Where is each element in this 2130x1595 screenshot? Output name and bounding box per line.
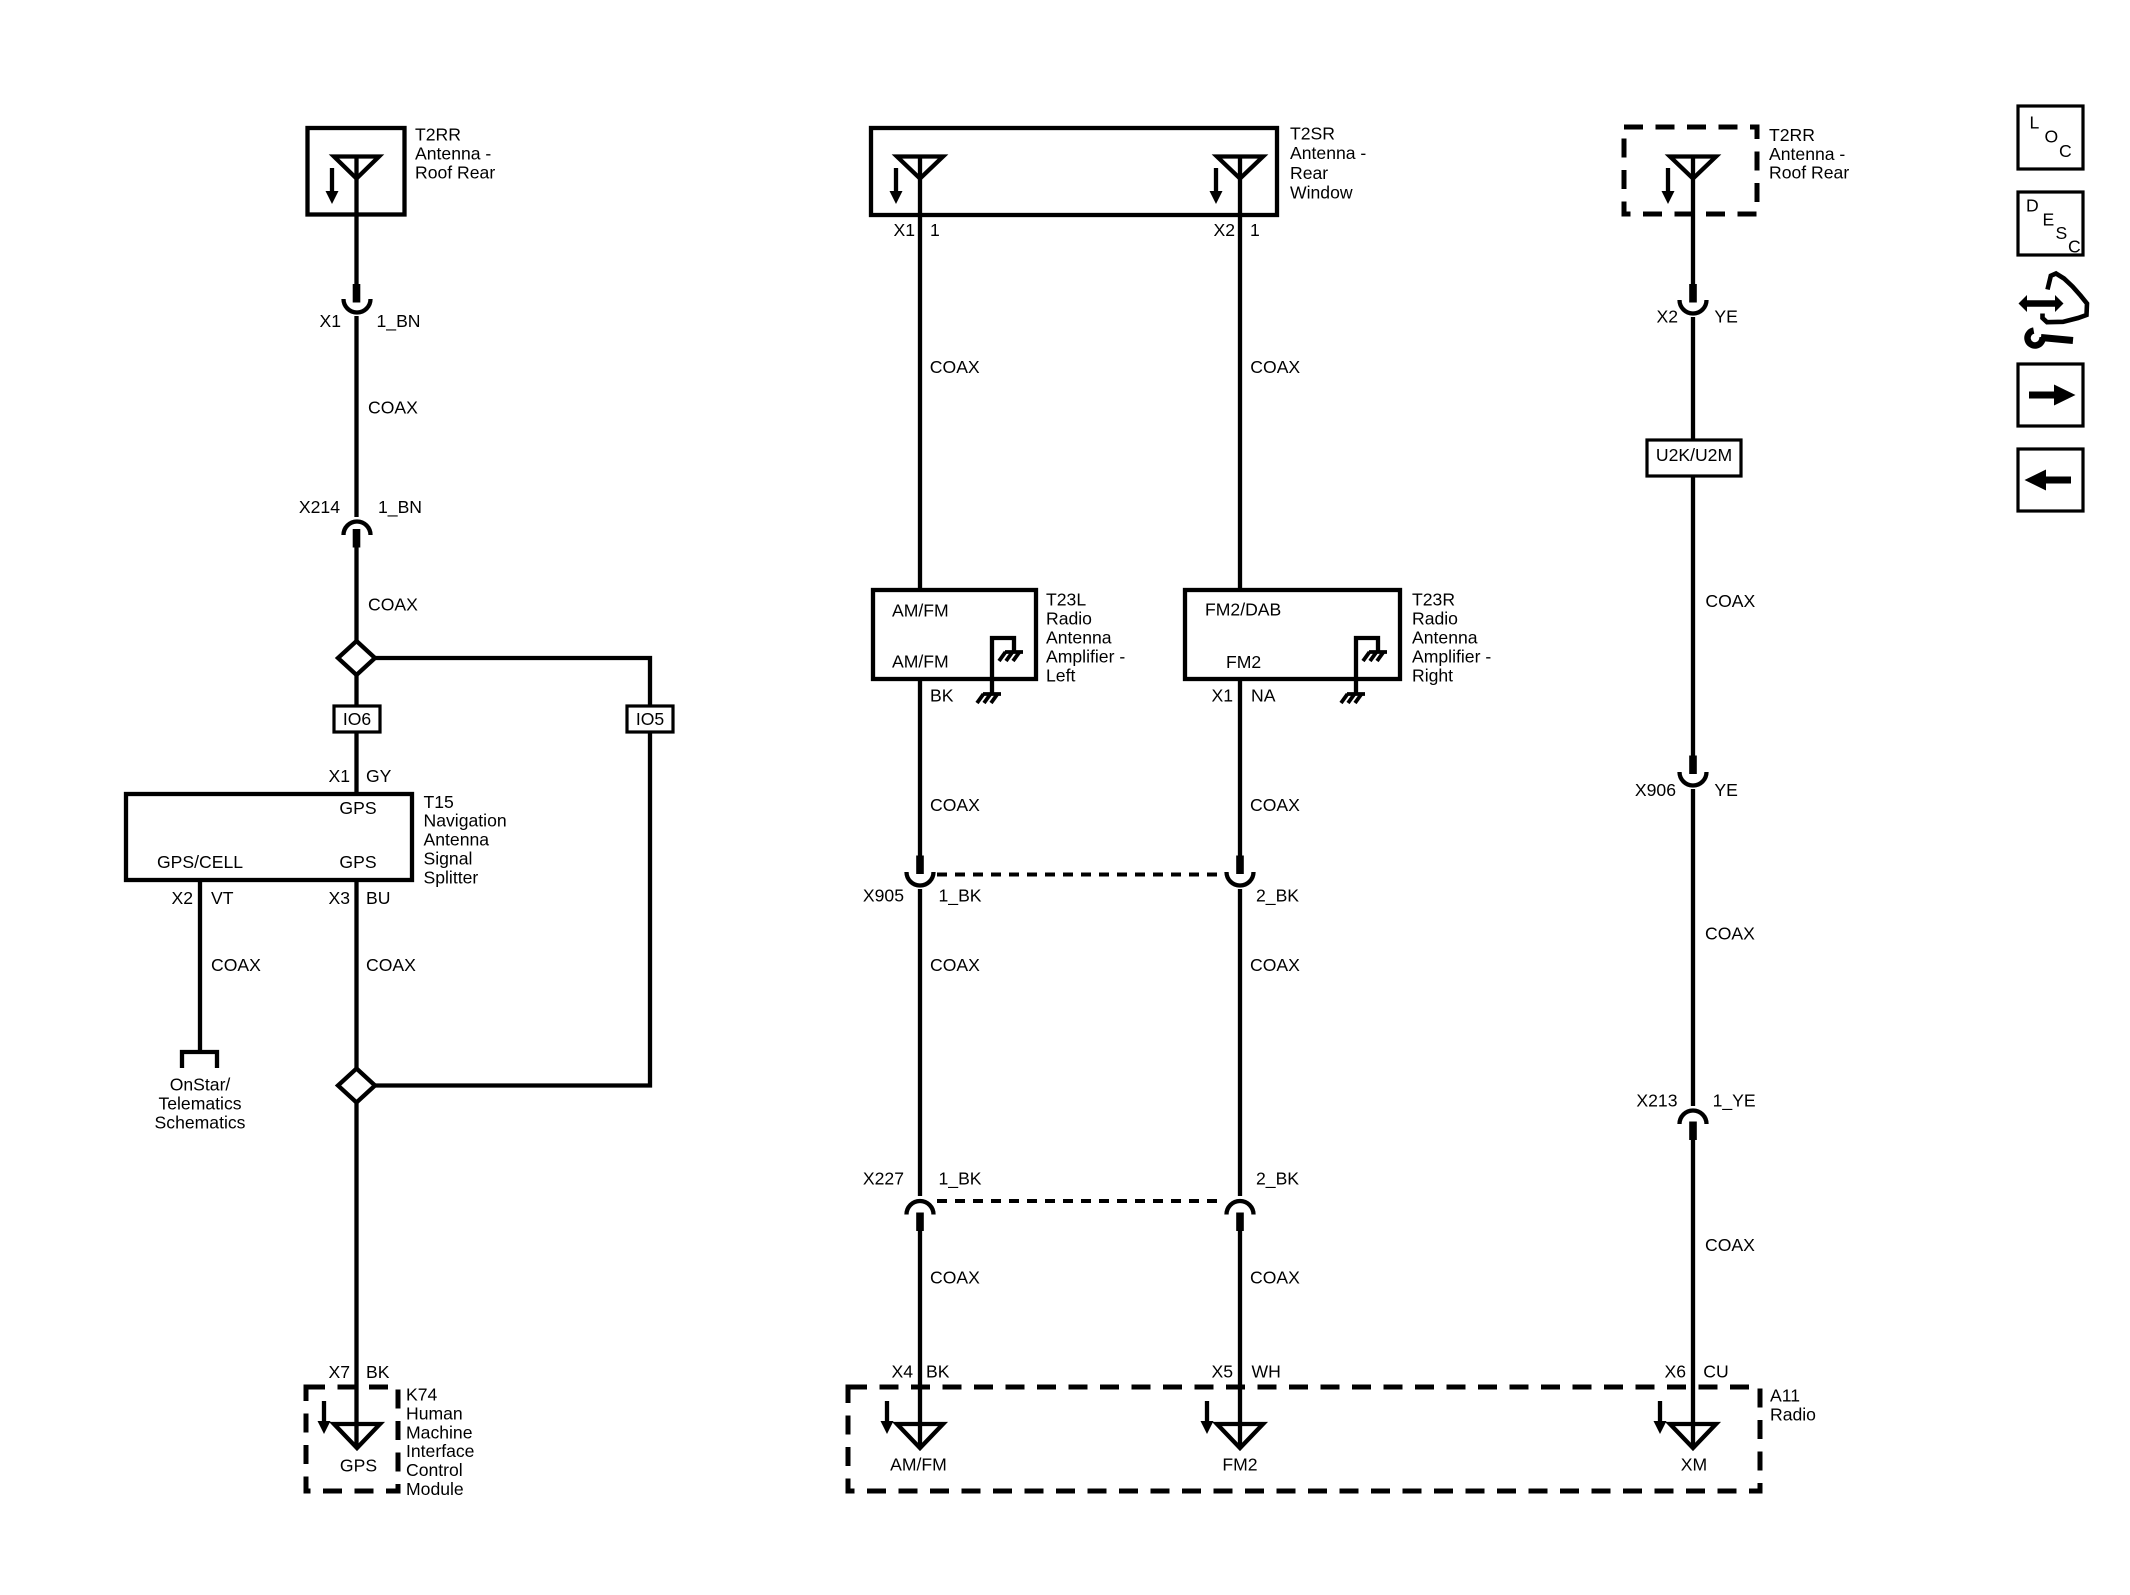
svg-text:Human: Human: [406, 1403, 463, 1423]
svg-text:Radio: Radio: [1412, 609, 1458, 629]
svg-text:Amplifier -: Amplifier -: [1412, 646, 1491, 666]
connector X227 left arc: [907, 1201, 934, 1215]
U2K/U2M box: [1647, 440, 1741, 476]
antenna symbol T2RR right: [1670, 157, 1716, 215]
antenna T2RR box: [308, 128, 405, 215]
svg-text:IO6: IO6: [343, 709, 372, 729]
connector X213 pin: [1689, 1122, 1697, 1141]
antenna T2RR dashed box: [1624, 127, 1757, 214]
svg-text:X5: X5: [1211, 1362, 1233, 1382]
dashed link X227: [937, 1199, 1225, 1203]
A11 radio dashed box: [848, 1387, 1760, 1491]
svg-text:X905: X905: [863, 886, 904, 906]
arrow in A11 XM: [1654, 1401, 1667, 1434]
svg-text:BK: BK: [926, 1362, 950, 1382]
arrow in T2RR: [326, 168, 339, 204]
svg-text:Radio: Radio: [1046, 609, 1092, 629]
antenna T2SR box: [871, 128, 1277, 215]
wire COAX X214 to splice: [354, 547, 358, 641]
svg-text:Control: Control: [406, 1460, 463, 1480]
svg-text:Schematics: Schematics: [155, 1112, 246, 1132]
label T15 name: [424, 792, 507, 888]
svg-text:WH: WH: [1252, 1362, 1281, 1382]
wire COAX T23R to X905: [1238, 679, 1242, 856]
svg-text:X6: X6: [1664, 1362, 1686, 1382]
svg-text:C: C: [2068, 237, 2081, 257]
wire COAX U2K to X906: [1691, 476, 1695, 756]
svg-text:1_BN: 1_BN: [377, 311, 421, 332]
svg-text:Splitter: Splitter: [424, 867, 479, 887]
svg-text:VT: VT: [211, 888, 234, 908]
wire COAX X213 to radio: [1691, 1139, 1695, 1448]
arrow in T2RR right: [1662, 168, 1675, 204]
svg-text:Radio: Radio: [1770, 1404, 1816, 1424]
icon wrench: [2028, 331, 2073, 346]
splice diamond node 1: [338, 641, 375, 675]
icon arrow left box: [2018, 449, 2083, 511]
wire COAX T2SR to T23R: [1238, 215, 1242, 590]
svg-text:X1: X1: [893, 220, 915, 240]
wire COAX X905 to X227 left: [918, 889, 922, 1196]
svg-text:COAX: COAX: [1705, 591, 1755, 611]
connector X227 right pin: [1236, 1213, 1244, 1232]
svg-text:COAX: COAX: [930, 357, 980, 377]
label K74 name: [406, 1385, 474, 1500]
svg-text:FM2: FM2: [1222, 1455, 1257, 1475]
svg-text:U2K/U2M: U2K/U2M: [1656, 445, 1732, 465]
svg-text:FM2/DAB: FM2/DAB: [1205, 600, 1281, 620]
arrow in T2SR right: [1210, 168, 1223, 204]
label OnStar Telematics Schematics: [155, 1075, 246, 1133]
wire COAX X227 to radio left: [918, 1230, 922, 1448]
svg-text:X4: X4: [891, 1362, 913, 1382]
svg-text:GPS: GPS: [339, 798, 376, 818]
svg-text:COAX: COAX: [930, 1268, 980, 1288]
icon vehicle outline: [2043, 274, 2088, 323]
svg-text:Antenna: Antenna: [424, 830, 490, 850]
svg-text:Module: Module: [406, 1479, 464, 1499]
terminal triangle FM2: [1217, 1424, 1263, 1448]
label T23L name: [1046, 590, 1125, 686]
svg-text:A11: A11: [1770, 1386, 1800, 1406]
svg-text:COAX: COAX: [1250, 1268, 1300, 1288]
antenna symbol T2SR left: [897, 157, 943, 216]
terminal triangle AM/FM: [897, 1424, 943, 1448]
svg-text:FM2: FM2: [1226, 652, 1261, 672]
label T2SR name: [1290, 123, 1366, 202]
arrow in T2SR left: [890, 168, 903, 204]
svg-text:Antenna: Antenna: [1412, 628, 1478, 648]
ground symbol T23R inner: [1363, 652, 1387, 661]
antenna symbol T2SR right: [1217, 157, 1263, 216]
wire COAX X905 to X227 right: [1238, 889, 1242, 1196]
svg-text:COAX: COAX: [1250, 357, 1300, 377]
wire antenna to X1: [354, 214, 358, 285]
ground symbol T23L lower: [977, 694, 1001, 703]
connector X214 pin: [353, 529, 361, 548]
arrow in A11 AM/FM: [881, 1401, 894, 1434]
svg-text:X1: X1: [319, 311, 341, 331]
svg-text:E: E: [2043, 210, 2055, 230]
connector X2 pin: [1689, 284, 1697, 303]
wire COAX X2 to OnStar: [198, 880, 202, 1050]
svg-text:O: O: [2045, 127, 2059, 147]
svg-text:Telematics: Telematics: [158, 1093, 241, 1113]
svg-text:Left: Left: [1046, 665, 1075, 685]
svg-text:GY: GY: [366, 766, 392, 786]
svg-text:AM/FM: AM/FM: [892, 652, 949, 672]
svg-text:Amplifier -: Amplifier -: [1046, 646, 1125, 666]
svg-text:S: S: [2056, 223, 2068, 243]
svg-text:X227: X227: [863, 1169, 904, 1189]
wire IO6 to T15: [354, 732, 358, 794]
wire X2 to U2K: [1691, 317, 1695, 440]
terminal triangle GPS: [334, 1424, 380, 1448]
svg-text:X1: X1: [328, 766, 350, 786]
svg-text:Antenna -: Antenna -: [1290, 143, 1366, 163]
wire COAX T23L to X905: [918, 679, 922, 856]
svg-text:COAX: COAX: [368, 398, 418, 418]
connector X2 arc: [1680, 300, 1707, 314]
wire splice to IO6: [354, 675, 358, 706]
icon arrow right box: [2018, 364, 2083, 426]
icon vehicle double arrow: [2019, 295, 2064, 312]
svg-text:T2RR: T2RR: [415, 125, 461, 145]
svg-text:T2RR: T2RR: [1769, 125, 1815, 145]
connector X1 pin: [353, 284, 361, 303]
svg-text:COAX: COAX: [930, 955, 980, 975]
connector X227 right arc: [1227, 1201, 1254, 1215]
svg-text:Roof Rear: Roof Rear: [415, 162, 495, 182]
svg-text:BK: BK: [930, 686, 954, 706]
svg-text:Machine: Machine: [406, 1422, 473, 1442]
connector X906 arc: [1680, 772, 1707, 786]
svg-text:X214: X214: [299, 497, 340, 517]
wire COAX X3 to splice2: [354, 880, 358, 1068]
svg-text:X2: X2: [1213, 220, 1235, 240]
wire splice branch to IO5: [375, 658, 650, 706]
svg-text:L: L: [2030, 113, 2040, 133]
off-page connector OnStar: [182, 1052, 217, 1068]
svg-text:X3: X3: [328, 888, 350, 908]
svg-text:AM/FM: AM/FM: [890, 1455, 947, 1475]
wire IO5 to splice2: [375, 732, 650, 1086]
svg-text:COAX: COAX: [211, 955, 261, 975]
arrow in A11 FM2: [1201, 1401, 1214, 1434]
svg-text:COAX: COAX: [368, 595, 418, 615]
icon arrow left: [2025, 470, 2072, 491]
wire antenna to X2: [1691, 214, 1695, 285]
ground symbol T23R lower: [1341, 694, 1365, 703]
svg-text:1: 1: [930, 220, 940, 240]
icon DESC box: [2018, 192, 2083, 255]
svg-text:X2: X2: [171, 888, 193, 908]
label T2RR name: [1769, 125, 1849, 183]
label T2RR name: [415, 125, 495, 183]
svg-text:Navigation: Navigation: [424, 811, 507, 831]
connector X227 left pin: [916, 1213, 924, 1232]
svg-text:Signal: Signal: [424, 849, 473, 869]
svg-text:1_YE: 1_YE: [1713, 1091, 1756, 1112]
svg-text:D: D: [2026, 196, 2039, 216]
svg-text:IO5: IO5: [636, 709, 665, 729]
svg-text:T23R: T23R: [1412, 590, 1455, 610]
svg-text:Interface: Interface: [406, 1441, 474, 1461]
svg-text:X1: X1: [1211, 686, 1233, 706]
svg-text:Antenna: Antenna: [1046, 628, 1112, 648]
connector X905 left arc: [907, 872, 934, 886]
svg-text:Roof Rear: Roof Rear: [1769, 163, 1849, 183]
T15 box: [126, 794, 412, 880]
svg-text:K74: K74: [406, 1385, 438, 1405]
page ref IO6 box: [334, 706, 380, 732]
icon LOC box: [2018, 106, 2083, 169]
antenna symbol T2RR: [334, 157, 379, 215]
dashed link X905: [937, 873, 1225, 877]
label T23R name: [1412, 590, 1491, 686]
svg-text:NA: NA: [1251, 686, 1276, 706]
wire COAX X1 to X214: [354, 316, 358, 517]
ground wire T23R: [1356, 638, 1378, 694]
svg-text:Antenna -: Antenna -: [1769, 144, 1845, 164]
connector X905 right arc: [1227, 872, 1254, 886]
connector X906 pin: [1689, 756, 1697, 775]
svg-text:COAX: COAX: [930, 795, 980, 815]
svg-text:T2SR: T2SR: [1290, 123, 1335, 143]
svg-text:X906: X906: [1635, 780, 1676, 800]
svg-text:OnStar/: OnStar/: [170, 1075, 231, 1095]
wire COAX X906 to X213: [1691, 789, 1695, 1106]
svg-text:T15: T15: [424, 792, 455, 812]
arrow in K74: [318, 1401, 331, 1434]
svg-text:1_BN: 1_BN: [378, 497, 422, 518]
icon DESC letters: [2026, 196, 2081, 257]
svg-text:X7: X7: [328, 1362, 350, 1382]
svg-text:Right: Right: [1412, 665, 1453, 685]
svg-text:GPS/CELL: GPS/CELL: [157, 852, 243, 872]
svg-text:C: C: [2059, 141, 2072, 161]
connector X905 left pin: [916, 856, 924, 875]
svg-text:1_BK: 1_BK: [939, 1169, 982, 1190]
T23R box: [1185, 590, 1400, 679]
svg-text:T23L: T23L: [1046, 590, 1086, 610]
K74 dashed box: [306, 1387, 398, 1491]
svg-text:BK: BK: [366, 1362, 390, 1382]
svg-text:GPS: GPS: [339, 852, 376, 872]
svg-text:COAX: COAX: [1705, 924, 1755, 944]
svg-text:BU: BU: [366, 888, 390, 908]
ground wire T23L: [992, 638, 1014, 694]
connector X214 arc: [344, 522, 371, 536]
T23L box: [873, 590, 1036, 679]
svg-text:X213: X213: [1636, 1091, 1677, 1111]
ground symbol T23L inner: [999, 652, 1023, 661]
svg-text:COAX: COAX: [366, 955, 416, 975]
wire splice2 to K74: [354, 1103, 358, 1449]
svg-text:1: 1: [1250, 220, 1260, 240]
svg-text:Rear: Rear: [1290, 163, 1328, 183]
connector X905 right pin: [1236, 856, 1244, 875]
svg-text:Antenna -: Antenna -: [415, 143, 491, 163]
svg-text:COAX: COAX: [1705, 1235, 1755, 1255]
wire COAX X227 to radio right: [1238, 1230, 1242, 1448]
svg-text:GPS: GPS: [340, 1456, 377, 1476]
icon LOC letters: [2030, 113, 2073, 162]
connector X1 arc: [344, 299, 371, 313]
svg-text:YE: YE: [1714, 307, 1737, 327]
icon arrow right: [2029, 385, 2076, 406]
terminal triangle XM: [1670, 1424, 1716, 1448]
svg-text:YE: YE: [1714, 780, 1737, 800]
page ref IO5 box: [627, 706, 673, 732]
svg-text:COAX: COAX: [1250, 795, 1300, 815]
svg-text:1_BK: 1_BK: [939, 886, 982, 907]
wire COAX T2SR to T23L: [918, 215, 922, 590]
svg-text:XM: XM: [1681, 1455, 1707, 1475]
svg-text:AM/FM: AM/FM: [892, 601, 949, 621]
splice diamond node 2: [338, 1069, 375, 1103]
svg-text:2_BK: 2_BK: [1256, 886, 1299, 907]
svg-text:2_BK: 2_BK: [1256, 1169, 1299, 1190]
svg-text:Window: Window: [1290, 183, 1353, 203]
svg-text:X2: X2: [1656, 307, 1678, 327]
label A11 Radio name: [1770, 1386, 1816, 1425]
connector X213 arc: [1680, 1111, 1707, 1125]
svg-text:COAX: COAX: [1250, 955, 1300, 975]
svg-text:CU: CU: [1703, 1362, 1728, 1382]
